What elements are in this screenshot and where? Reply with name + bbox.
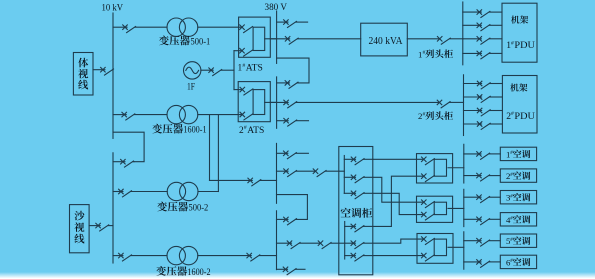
AC unit 4 branch [464, 217, 501, 225]
1#ATS input1 contact [240, 25, 253, 33]
label 6#空调 [506, 257, 530, 267]
AC unit box 1 [500, 147, 536, 160]
net row1 to ACATS1 input1 [373, 158, 423, 160]
bus tie left loop [113, 132, 144, 162]
svg-text:500-2: 500-2 [189, 203, 209, 214]
svg-text:10 kV: 10 kV [102, 2, 124, 13]
AC unit 3 branch [464, 195, 501, 203]
wire to PDU bus 1 [450, 38, 463, 40]
label 2#列头柜 [418, 111, 453, 121]
PDU1 branch 1 [463, 10, 502, 18]
AC unit 6 branch [464, 260, 501, 268]
transformer T4 1600-2 [167, 246, 198, 264]
incoming switch 体视线 [93, 67, 114, 75]
feeder breaker to transformer 1600-2 [113, 253, 167, 261]
label transformer 500-2 [157, 202, 208, 214]
svg-text:1600-1: 1600-1 [183, 125, 206, 136]
svg-text:500-1: 500-1 [191, 36, 211, 47]
wire T2 to 2#ATS input2 [198, 114, 243, 116]
label 4#空调 [506, 215, 530, 225]
2#ATS inner transfer rect [253, 90, 265, 115]
label 空调柜 [341, 208, 372, 218]
transformer T1 500-1 [167, 18, 198, 36]
label 1#ATS [238, 63, 263, 74]
PDU2 branch 2 [464, 95, 503, 103]
AC cabinet internal bus upper [343, 156, 345, 194]
AC unit 2 branch [464, 173, 501, 181]
bus tie left switch [113, 159, 134, 167]
transformer T2 1600-1 [167, 105, 198, 123]
label 机架 rack1 [511, 15, 528, 23]
ATS U2 (2#ATS) outer box [238, 82, 270, 122]
label 5#空调 [506, 236, 530, 246]
net row5 to ACATS3 input1 [373, 239, 424, 243]
PDU1 branch 4 [463, 51, 502, 59]
svg-text:1600-2: 1600-2 [187, 267, 210, 278]
AC cabinet internal bus lower [344, 222, 346, 260]
AC cabinet outgoing 6 [345, 253, 373, 261]
row cabinet 2 incoming switch [437, 100, 450, 108]
Q1 input1 contact [422, 157, 435, 165]
wire to 1#ATS input2 [234, 50, 242, 52]
AC unit 1 branch [464, 152, 501, 160]
Q3 output [448, 246, 464, 248]
2#ATS output line to row cabinet 2 [270, 100, 439, 108]
svg-text:1F: 1F [187, 82, 195, 92]
1#ATS input2 contact [240, 48, 253, 56]
1#ATS output [265, 38, 277, 40]
trunk supply from T2/T3 [210, 178, 277, 186]
AC cabinet box 空调柜 [339, 147, 373, 275]
380V bus 2 [276, 77, 278, 128]
AC trunk lower [276, 211, 278, 270]
row cabinet 1 incoming switch [437, 37, 450, 45]
spare feeder AC trunk top [277, 151, 309, 159]
wire to 2#ATS input1 [234, 89, 242, 91]
AC transfer switch Q3 [417, 234, 453, 264]
svg-text:PDU: PDU [514, 40, 535, 51]
label transformer 1600-1 [152, 124, 206, 136]
net row6 to ACATS3 input2 [373, 255, 424, 257]
AC bus segment 2 [463, 189, 465, 226]
incoming source box 沙视线 [70, 205, 90, 253]
net row4 to ACATS1 input2 [373, 176, 423, 226]
AC cabinet outgoing 2 [344, 175, 373, 183]
label 1#空调 [506, 149, 530, 159]
AC unit box 6 [500, 255, 536, 268]
svg-text:#: # [423, 112, 426, 118]
AC bus segment 3 [463, 232, 465, 269]
label 1#PDU [506, 40, 535, 51]
AC cabinet outgoing 5 [345, 241, 373, 249]
drop wire from T2 node to AC trunk feed [209, 115, 211, 181]
AC feeder2 switch a [277, 241, 321, 249]
Q2 input1 contact [422, 200, 435, 208]
AC transfer switch Q2 [417, 196, 453, 222]
PDU2 branch 1 [464, 81, 503, 89]
label 3#空调 [506, 193, 530, 203]
AC trunk upper [276, 143, 278, 203]
AC cabinet outgoing 1 [344, 157, 373, 165]
380V bus 1 [276, 11, 278, 63]
net row3 to ACATS2 input2 [373, 193, 423, 214]
Q3 input1 contact [422, 237, 435, 245]
rack box 机架/1#PDU [502, 3, 537, 62]
PDU2 branch 4 [464, 122, 503, 130]
AC bus segment 1 [463, 144, 465, 183]
incoming source box 体视线 [73, 53, 93, 96]
label 2#PDU [506, 111, 535, 122]
label 体视线 [78, 58, 88, 90]
spare feeder bus2 [277, 118, 309, 126]
T4 output switch to trunk [198, 253, 277, 261]
generator output switch [201, 68, 234, 76]
AC unit 5 branch [464, 238, 501, 246]
AC unit box 3 [500, 191, 536, 204]
PDU bus 1 [462, 2, 464, 65]
transformer T3 500-2 [167, 182, 198, 200]
spare feeder AC trunk bottom [277, 267, 306, 275]
svg-text:ATS: ATS [246, 64, 263, 74]
bus A 10kV section 1 [112, 13, 114, 138]
svg-text:240 kVA: 240 kVA [369, 36, 403, 47]
feeder breaker to transformer 1600-1 [113, 112, 167, 120]
PDU bus 2 [463, 75, 465, 136]
UPS supply feeder breaker [270, 37, 360, 45]
AC feeder1 switch b [313, 169, 326, 177]
bus B 10kV section 2 [112, 153, 114, 263]
label transformer 500-1 [159, 36, 210, 48]
Q1 output [448, 167, 464, 169]
label 2#空调 [506, 171, 530, 181]
1#ATS inner transfer rect [253, 27, 265, 50]
Q2 output [448, 207, 464, 209]
label transformer 1600-2 [156, 266, 210, 278]
feeder breaker to transformer 500-2 [113, 189, 167, 197]
2#ATS output [265, 101, 277, 103]
AC unit box 2 [500, 169, 536, 182]
Q3 input2 contact [422, 253, 435, 261]
wire T1 to 1#ATS input1 [198, 26, 242, 28]
svg-text:#: # [423, 50, 426, 56]
AC transfer switch Q1 [417, 154, 453, 183]
AC feeder1 switch a [277, 169, 316, 177]
generator tie trunk vertical [233, 51, 235, 90]
drop wire from T2 line to T3 output [217, 115, 219, 192]
bus tie 380V loop [277, 58, 309, 83]
PDU1 branch 2 [463, 23, 502, 31]
svg-text:PDU: PDU [514, 111, 535, 122]
AC feeder2 switch b [318, 241, 331, 249]
feeder breaker to transformer 500-1 [113, 25, 167, 33]
incoming switch 沙视线 [89, 223, 113, 231]
label 沙视线 [74, 211, 84, 244]
2#ATS input1 contact [240, 87, 253, 95]
Q1 input2 contact [422, 174, 435, 182]
wire T3 output [198, 191, 218, 193]
net row2 to ACATS2 input1 [373, 177, 423, 202]
AC unit box 4 [500, 213, 536, 226]
label 2#ATS [239, 125, 264, 136]
AC trunk tie loop [277, 195, 308, 220]
svg-text:380 V: 380 V [265, 2, 288, 13]
PDU1 branch 3 [463, 37, 502, 45]
2#ATS input2 contact [240, 112, 253, 120]
AC cabinet outgoing 3 [344, 191, 373, 199]
AC feeder1 into cabinet [326, 170, 345, 172]
ATS U1 (1#ATS) outer box [239, 17, 271, 57]
label 机架 rack2 [510, 83, 527, 91]
PDU2 branch 3 [464, 108, 503, 116]
Q2 input2 contact [422, 212, 435, 220]
AC trunk tie switch [277, 217, 297, 225]
svg-text:ATS: ATS [247, 126, 264, 136]
UPS box 240 kVA [361, 23, 408, 56]
wire to PDU bus 2 [450, 101, 464, 103]
rack box 机架/2#PDU [502, 76, 537, 134]
spare feeder bus1 [277, 20, 308, 28]
AC cabinet outgoing 4 [345, 224, 373, 232]
AC unit box 5 [500, 234, 536, 247]
UPS output wire [407, 38, 439, 40]
label 1#列头柜 [418, 49, 453, 59]
generator 1F [184, 62, 201, 79]
bus tie 380V switch [277, 81, 298, 89]
AC feeder2 into cabinet [331, 242, 345, 244]
